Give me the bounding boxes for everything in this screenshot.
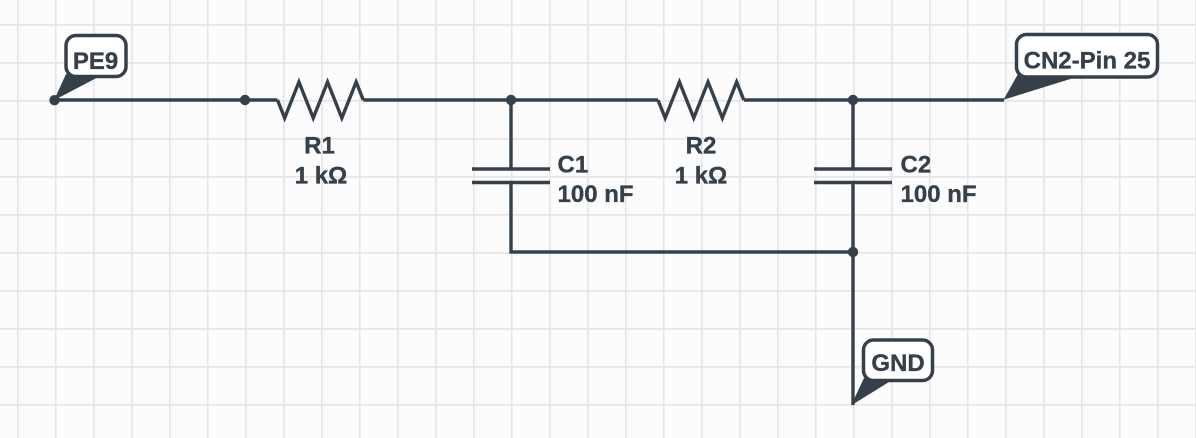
svg-text:R2: R2 (686, 133, 717, 160)
wire: ground rail to GND flag (851, 252, 854, 405)
junction dot at PE9 terminal (49, 95, 59, 105)
svg-text:GND: GND (871, 350, 924, 377)
junction node B (top of C2) (848, 95, 858, 105)
svg-text:C2: C2 (901, 152, 932, 179)
wire: PE9 terminal to R1 (55, 98, 278, 101)
resistor R2 (658, 82, 744, 118)
net flag CN2-Pin 25 (1004, 35, 1158, 100)
svg-text:CN2-Pin 25: CN2-Pin 25 (1024, 48, 1151, 75)
resistor R1 (278, 82, 364, 118)
junction dot between PE9 and R1 (240, 95, 250, 105)
svg-text:100 nF: 100 nF (901, 181, 977, 208)
svg-text:1 kΩ: 1 kΩ (295, 163, 348, 190)
junction dot on ground rail (848, 247, 858, 257)
wire: node B to CN2-Pin 25 flag (853, 98, 1004, 101)
svg-text:100 nF: 100 nF (558, 181, 634, 208)
wire: R1 to node A (363, 98, 511, 101)
wire: R2 to node B (744, 98, 853, 101)
wire: node A to R2 (511, 98, 658, 101)
svg-text:1 kΩ: 1 kΩ (675, 163, 728, 190)
net flag GND (851, 340, 933, 406)
svg-text:R1: R1 (304, 133, 335, 160)
svg-text:C1: C1 (558, 152, 589, 179)
net flag PE9 (54, 36, 126, 101)
junction node A (top of C1) (506, 95, 516, 105)
capacitor C1 (472, 100, 550, 183)
capacitor C2 (814, 100, 892, 252)
svg-text:PE9: PE9 (73, 48, 118, 75)
wire: ground rail C1 to C2 (511, 183, 853, 253)
